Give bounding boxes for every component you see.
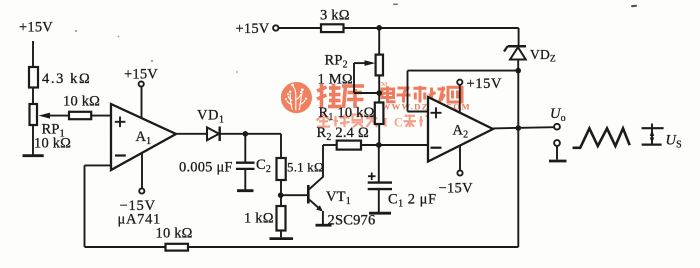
svg-text:+15V: +15V [467,76,503,92]
svg-text:10 kΩ: 10 kΩ [34,136,71,152]
svg-text:WWW.DZSC.COM: WWW.DZSC.COM [382,101,471,111]
svg-text:C1 2 μF: C1 2 μF [388,192,437,210]
svg-text:1 kΩ: 1 kΩ [244,211,274,227]
svg-text:+15V: +15V [236,21,270,37]
svg-text:0.005 μF: 0.005 μF [179,160,233,176]
svg-text:R1 10 kΩ: R1 10 kΩ [319,105,375,123]
svg-text:3 kΩ: 3 kΩ [320,8,350,24]
svg-text:10 kΩ: 10 kΩ [156,226,193,242]
svg-text:2SC976: 2SC976 [328,213,376,229]
svg-text:5.1 kΩ: 5.1 kΩ [287,160,324,175]
svg-text:IC: IC [383,115,409,129]
svg-text:R2 2.4 Ω: R2 2.4 Ω [317,125,369,143]
svg-text:μA741: μA741 [118,212,162,228]
svg-text:+15V: +15V [19,20,53,36]
svg-text:+15V: +15V [124,67,158,83]
svg-text:4.3 kΩ: 4.3 kΩ [42,71,91,87]
svg-text:−15V: −15V [439,181,474,197]
svg-text:10 kΩ: 10 kΩ [63,94,100,110]
svg-text:1 MΩ: 1 MΩ [318,72,353,88]
